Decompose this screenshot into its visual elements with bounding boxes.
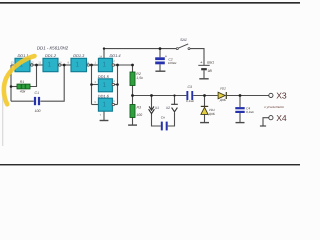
inverter DD1.1 [15,58,33,71]
junction node R2-R3 [131,94,134,97]
junction node X1 [150,94,153,97]
ground below R3 [128,124,137,126]
wire C4 stub [239,96,241,108]
resistor R2 [130,72,143,86]
svg-text:DD1 - К561ЛН2: DD1 - К561ЛН2 [37,45,69,50]
svg-text:R3: R3 [137,105,142,109]
svg-text:1: 1 [102,102,106,109]
ground below VD1 [200,122,209,124]
inverter DD1.2 [43,58,61,71]
junction node corner above R2 [131,64,134,67]
capacitor C3 [186,85,194,103]
wire X4 lead [263,118,269,126]
wire power rail right of switch [190,49,204,65]
terminal X3 [269,91,287,101]
wire C2 top stub [159,49,161,58]
wire X1 stub [151,96,153,110]
wire stub output DD1.4 [115,64,118,66]
svg-text:R1: R1 [20,80,25,84]
svg-text:13: 13 [11,61,14,64]
wire R1 left lead [11,86,17,88]
junction node rail corner pin14 [103,47,105,49]
wire DD1.3 out to DD1.4 in [88,64,99,66]
ground below C2 [155,70,165,72]
svg-text:100: 100 [35,109,41,113]
wire VD1 stub [204,96,206,107]
wire C1 right up to node [40,65,64,101]
svg-text:0,1мк: 0,1мк [186,99,194,103]
ground below battery [199,78,208,80]
svg-text:1: 1 [47,62,51,69]
wire DD1.1 out to DD1.2 in [31,64,43,66]
junction node R1 left [10,85,13,88]
svg-text:1: 1 [75,62,79,69]
inverter DD1.6 [98,98,114,111]
svg-text:9В: 9В [208,69,213,73]
svg-text:X2: X2 [165,106,170,110]
wire C4 to ground [239,113,241,122]
svg-text:DD1.2: DD1.2 [45,53,57,58]
junction node input bus DD1.5 [90,83,93,86]
svg-text:1,5к: 1,5к [136,76,143,80]
wire bottom C1 left [11,100,34,102]
junction node X2 [173,94,175,96]
junction node output bus top [116,64,119,67]
wire output tap to R2 [118,65,133,72]
svg-text:X3: X3 [276,91,287,101]
svg-text:10: 10 [59,61,62,64]
terminal X4 [260,113,287,126]
svg-text:100: 100 [136,113,142,117]
junction node DD1.3 out [90,64,93,67]
svg-text:DD1.6: DD1.6 [98,93,110,98]
capacitor C4 [235,107,254,115]
wire main output segment 2 [193,95,217,97]
diode VD1 [201,106,215,116]
top frame line [0,2,300,4]
wire stub output DD1.6 [115,104,118,106]
wire R3 top lead [132,96,134,105]
svg-text:14: 14 [99,56,102,59]
wire DD1.6 pin7 to ground [103,111,105,120]
junction node DD1.1 out [35,64,38,67]
svg-text:DD1.4: DD1.4 [110,53,122,58]
wire X2 stub [174,96,176,105]
junction node VD1 [203,94,206,97]
wire stub output DD1.5 [115,84,118,86]
junction node DD1.2 out [63,64,66,67]
svg-text:43к: 43к [20,89,26,93]
junction node output bus DD1.5 [116,83,119,86]
wire R1 right lead up to node [30,65,37,87]
wire DD1.2 out to DD1.3 in [59,64,71,66]
svg-text:0,1мк: 0,1мк [246,110,254,114]
capacitor Cn [161,116,168,131]
battery Bat1 [198,60,214,74]
ground below DD1.6 pin7 [100,120,109,122]
inverter DD1.5 [98,79,114,92]
svg-text:VD2: VD2 [220,87,226,91]
svg-text:к усилителю: к усилителю [264,105,284,109]
inverter DD1.4 [98,58,114,71]
svg-text:X4: X4 [276,113,287,123]
wire VD1 to ground [204,115,206,122]
svg-text:Д9Б: Д9Б [219,98,226,102]
junction node C2 on rail [159,47,162,50]
wire stub input DD1.6 [92,104,99,106]
bottom frame line [0,164,300,165]
svg-text:C1: C1 [35,91,40,95]
capacitor C1 [34,91,41,113]
wire R2 bottom to junction [132,86,134,96]
capacitor C2 [155,53,177,65]
svg-text:C3: C3 [188,85,192,89]
wire input row to DD1.1 [11,64,15,66]
svg-text:1: 1 [102,62,106,69]
svg-text:12: 12 [31,61,34,64]
svg-text:1: 1 [102,82,106,89]
wire R3 bottom to ground [132,118,134,125]
yellow highlighter arrow [4,56,35,104]
wire battery to ground [203,70,205,78]
diode VD2 [218,87,226,103]
wire power rail [104,49,176,59]
svg-text:DD1.5: DD1.5 [98,74,110,79]
connector pin X1 [149,106,155,113]
svg-text:SA1: SA1 [180,38,187,42]
wire input bus DD1.4-DD1.6 [91,65,93,105]
wire Cn to X2 loop [168,113,175,127]
wire main output segment 3 [227,95,269,97]
wire left vertical input node [10,65,12,101]
svg-text:Д9Б: Д9Б [208,112,215,116]
svg-text:DD1.3: DD1.3 [73,53,85,58]
switch SA1 [176,38,190,49]
junction node C4 [239,94,242,97]
wire stub input DD1.5 [92,84,99,86]
resistor R3 [130,105,142,118]
inverter DD1.3 [71,58,90,71]
svg-text:Сн: Сн [161,116,165,120]
wire C2 bottom to ground [159,64,161,70]
connector pin X2 [171,104,178,112]
wire output bus DD1.4-DD1.6 [117,65,119,105]
wire main output segment 1 [133,95,187,97]
resistor R1 [17,80,30,93]
svg-text:100мк: 100мк [168,61,177,65]
svg-text:X1: X1 [154,106,159,110]
ground below C4 [236,122,245,124]
wire X1 to Cn loop [152,114,161,126]
svg-text:Bat1: Bat1 [207,61,214,65]
faint left border [1,96,4,146]
